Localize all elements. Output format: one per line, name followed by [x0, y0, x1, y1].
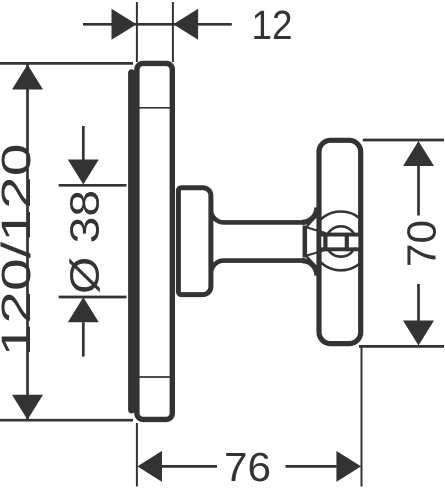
extension line: plate left face (12 dim): [136, 2, 138, 62]
extension line: plate bottom (120 dim): [0, 419, 133, 422]
stem body (d38): [178, 188, 211, 295]
cone silhouette upper: [307, 216, 317, 228]
arrowhead down (d38 top, outside): [68, 160, 99, 185]
dimension line 120/120: [26, 65, 29, 420]
extension line: wall face (76 dim): [136, 423, 138, 487]
svg-text:120/120: 120/120: [0, 144, 39, 357]
dim line 70 lower segment: [417, 284, 420, 321]
cone silhouette lower: [307, 256, 317, 268]
band line top: [318, 233, 362, 237]
plate face line top: [140, 107, 171, 109]
handle disc outline: [319, 140, 361, 343]
slot right edge: [345, 233, 349, 252]
inner circle on disc: [326, 226, 356, 256]
svg-text:70: 70: [398, 220, 444, 267]
flare fillet upper: [302, 207, 317, 222]
extension line: disc bottom (70 dim): [359, 345, 444, 348]
dim line lower stub (d38): [82, 322, 85, 356]
flare fillet lower: [302, 261, 317, 276]
dim line 76 right segment: [286, 465, 337, 468]
svg-text:Ø 38: Ø 38: [61, 190, 107, 294]
band interior mask: [321, 237, 358, 248]
dim line 70 upper segment: [417, 166, 420, 216]
svg-text:76: 76: [224, 444, 271, 490]
neck bottom contour: [211, 261, 303, 283]
spindle bump edge: [303, 226, 308, 258]
svg-text:12: 12: [252, 2, 293, 48]
neck top contour: [211, 200, 303, 222]
plate outline (side view): [137, 63, 172, 419]
arrowhead right (12 dim left, outside): [112, 9, 137, 40]
arrowhead right (76 dim right): [336, 451, 361, 482]
cone line lower: [307, 250, 326, 256]
tick line stem bottom (d38): [59, 296, 127, 299]
extension line: disc top (70 dim): [363, 139, 444, 142]
arrowhead up (120 dim top): [12, 65, 43, 90]
arrowhead up (d38 bottom, outside): [68, 297, 99, 322]
extension line: disc right face (76 dim): [361, 348, 363, 487]
band line bottom: [318, 247, 362, 251]
extension line: plate right face (12 dim): [172, 2, 174, 62]
extension line: plate top (120 dim): [0, 62, 133, 65]
plate back edge bar: [128, 73, 135, 410]
slot left edge: [323, 233, 327, 252]
arrowhead left (12 dim right, outside): [173, 9, 198, 40]
cone line upper: [307, 228, 326, 234]
plate face line bottom: [140, 376, 171, 378]
arrowhead down (120 dim bottom): [12, 395, 43, 420]
dimension line 12: [83, 23, 232, 26]
dim line upper stub (d38): [82, 126, 85, 160]
outer circle on disc: [312, 212, 371, 271]
dim line 76 left segment: [162, 465, 217, 468]
tick line stem top (d38): [59, 184, 127, 187]
arrowhead up (70 dim top): [403, 141, 434, 166]
arrowhead down (70 dim bottom): [403, 321, 434, 346]
arrowhead left (76 dim left): [137, 451, 162, 482]
